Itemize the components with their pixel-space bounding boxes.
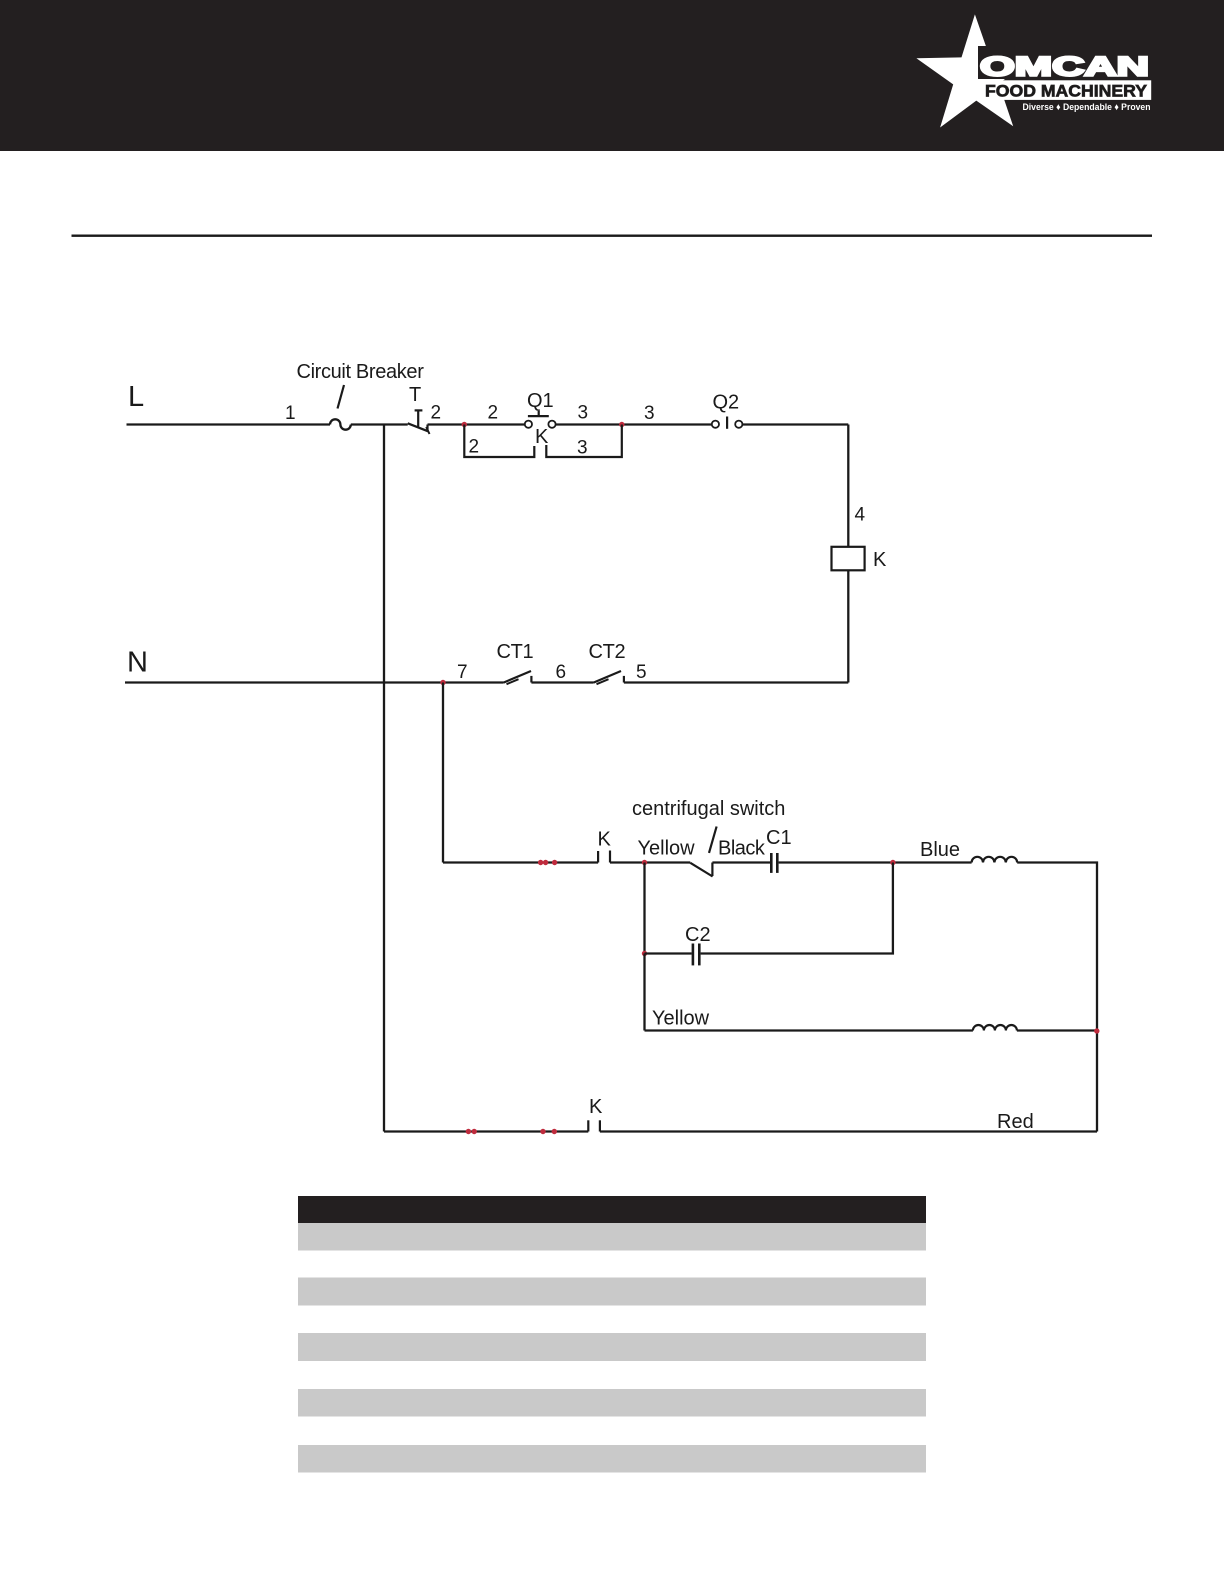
svg-text:K: K	[873, 549, 887, 571]
contact K auxiliary label	[535, 426, 549, 448]
svg-text:N: N	[127, 647, 148, 679]
label Yellow upper	[638, 838, 696, 860]
OMCAN logo star	[916, 14, 1160, 127]
label 3 in bypass	[577, 438, 588, 459]
capacitor C1	[771, 853, 777, 873]
node dots pair bottom left	[466, 1129, 477, 1134]
wire bottom rail right segment	[600, 1130, 1097, 1132]
wire winding to right corner	[1017, 863, 1097, 1132]
contact K2 label	[589, 1096, 603, 1118]
OMCAN logo wordmark	[980, 52, 1149, 82]
coil K	[832, 547, 865, 571]
capacitor C1 label	[766, 827, 792, 849]
table row 3	[298, 1333, 926, 1361]
table row 4	[298, 1389, 926, 1417]
table header bar	[298, 1196, 926, 1223]
pushbutton Q2	[712, 417, 743, 429]
wire N junction vertical	[442, 683, 444, 863]
pushbutton Q1 label	[527, 390, 554, 412]
contact K1	[598, 851, 610, 863]
header banner	[0, 0, 1224, 151]
svg-text:Black: Black	[718, 838, 766, 860]
svg-text:CT2: CT2	[589, 641, 626, 663]
node dots pair bottom mid	[540, 1129, 557, 1134]
node dot	[552, 860, 557, 865]
svg-text:2: 2	[488, 403, 499, 424]
wire Yellow branch horizontal	[645, 1029, 973, 1031]
wire C2 branch vertical	[643, 863, 645, 954]
wire winding to right rail	[1017, 1029, 1097, 1031]
svg-text:C1: C1	[766, 827, 792, 849]
svg-text:1: 1	[285, 403, 296, 424]
svg-text:4: 4	[855, 504, 866, 525]
circuit breaker	[330, 419, 351, 429]
svg-text:OMCAN: OMCAN	[980, 52, 1149, 82]
contact CT2 label	[589, 641, 626, 663]
wire main left vertical	[383, 425, 385, 1132]
wire to C1	[712, 861, 770, 863]
wire to C2	[645, 952, 692, 954]
contact K2	[588, 1120, 600, 1131]
wire bottom rail left segment	[384, 1130, 588, 1132]
switch T	[408, 410, 430, 434]
centrifugal switch pointer slash	[709, 827, 717, 853]
capacitor C2 label	[685, 924, 711, 946]
svg-text:Diverse ♦ Dependable ♦ Proven: Diverse ♦ Dependable ♦ Proven	[1023, 102, 1151, 113]
svg-text:T: T	[409, 384, 421, 406]
contact K aux bypass left loop	[464, 425, 534, 458]
svg-text:Q2: Q2	[713, 392, 740, 414]
node junction dot N	[440, 680, 445, 685]
pushbutton Q2 label	[713, 392, 740, 414]
OMCAN logo FOOD MACHINERY box	[981, 80, 1152, 100]
label Red	[997, 1111, 1034, 1133]
wire L rail segment 3	[428, 423, 525, 425]
contact CT1	[504, 671, 532, 684]
svg-text:Yellow: Yellow	[652, 1007, 710, 1029]
contact CT2	[594, 671, 624, 684]
svg-text:2: 2	[431, 403, 442, 424]
node Yellow junction dot	[642, 860, 647, 865]
coil K label	[873, 549, 887, 571]
svg-text:K: K	[589, 1096, 603, 1118]
svg-text:7: 7	[457, 662, 468, 683]
wire start branch horizontal	[443, 861, 598, 863]
label 4	[855, 504, 866, 525]
label 5	[636, 662, 647, 683]
label 2 above rail second	[488, 403, 499, 424]
label 2 in bypass	[469, 437, 480, 458]
svg-text:C2: C2	[685, 924, 711, 946]
inductor main winding	[972, 857, 1018, 863]
wire N rail segment 2	[531, 681, 593, 683]
node N label	[127, 647, 148, 679]
svg-text:Circuit Breaker: Circuit Breaker	[297, 361, 425, 383]
svg-text:K: K	[535, 426, 549, 448]
svg-text:FOOD MACHINERY: FOOD MACHINERY	[985, 83, 1147, 101]
circuit breaker label	[297, 361, 425, 383]
contact CT1 label	[497, 641, 534, 663]
svg-text:Red: Red	[997, 1111, 1034, 1133]
node junction dot	[462, 422, 467, 427]
wire Yellow branch vertical	[643, 954, 645, 1031]
svg-text:2: 2	[469, 437, 480, 458]
OMCAN logo tagline	[1023, 102, 1151, 113]
svg-text:Yellow: Yellow	[638, 838, 696, 860]
wire L rail segment 4	[556, 423, 712, 425]
node junction dot	[619, 422, 624, 427]
label 7	[457, 662, 468, 683]
label Black	[718, 838, 766, 860]
wire N rail segment 1	[125, 681, 504, 683]
table row 1	[298, 1223, 926, 1251]
svg-text:Blue: Blue	[920, 839, 960, 861]
node Blue junction dot	[890, 860, 895, 865]
label 6	[556, 662, 567, 683]
svg-text:CT1: CT1	[497, 641, 534, 663]
node dots pair	[538, 860, 548, 865]
table row 5	[298, 1445, 926, 1473]
centrifugal switch	[690, 863, 712, 877]
svg-text:6: 6	[556, 662, 567, 683]
svg-text:3: 3	[644, 403, 655, 424]
node L label	[128, 381, 144, 413]
centrifugal switch label	[632, 798, 785, 820]
label 1	[285, 403, 296, 424]
label Yellow lower	[652, 1007, 710, 1029]
capacitor C2	[693, 944, 699, 966]
contact K1 label	[598, 829, 612, 851]
svg-text:Q1: Q1	[527, 390, 554, 412]
node right rail junction dot	[1094, 1028, 1099, 1033]
label 2 above rail	[431, 403, 442, 424]
label Blue	[920, 839, 960, 861]
svg-text:5: 5	[636, 662, 647, 683]
svg-text:3: 3	[578, 403, 589, 424]
contact K aux bypass right loop	[546, 425, 622, 458]
wire L rail segment 5	[742, 423, 848, 425]
wire to coil vertical	[847, 425, 849, 547]
label 3 above rail	[578, 403, 589, 424]
inductor start winding	[973, 1025, 1017, 1031]
wire N rail segment 3	[624, 681, 848, 683]
wire L rail segment 1	[127, 423, 331, 425]
circuit breaker pointer slash	[338, 385, 345, 409]
pushbutton Q1	[525, 411, 556, 428]
wire C1 to dot	[779, 861, 972, 863]
node C2 junction dot	[642, 951, 647, 956]
switch T label	[409, 384, 421, 406]
wire L rail segment 2	[351, 423, 408, 425]
label 3 above rail second	[644, 403, 655, 424]
wire after K1	[610, 861, 690, 863]
wire C2 to Blue node	[701, 863, 893, 954]
wire coil to N rail	[847, 570, 849, 682]
horizontal rule	[72, 235, 1153, 237]
svg-text:centrifugal switch: centrifugal switch	[632, 798, 785, 820]
svg-text:L: L	[128, 381, 144, 413]
table row 2	[298, 1278, 926, 1306]
svg-text:K: K	[598, 829, 612, 851]
svg-text:3: 3	[577, 438, 588, 459]
